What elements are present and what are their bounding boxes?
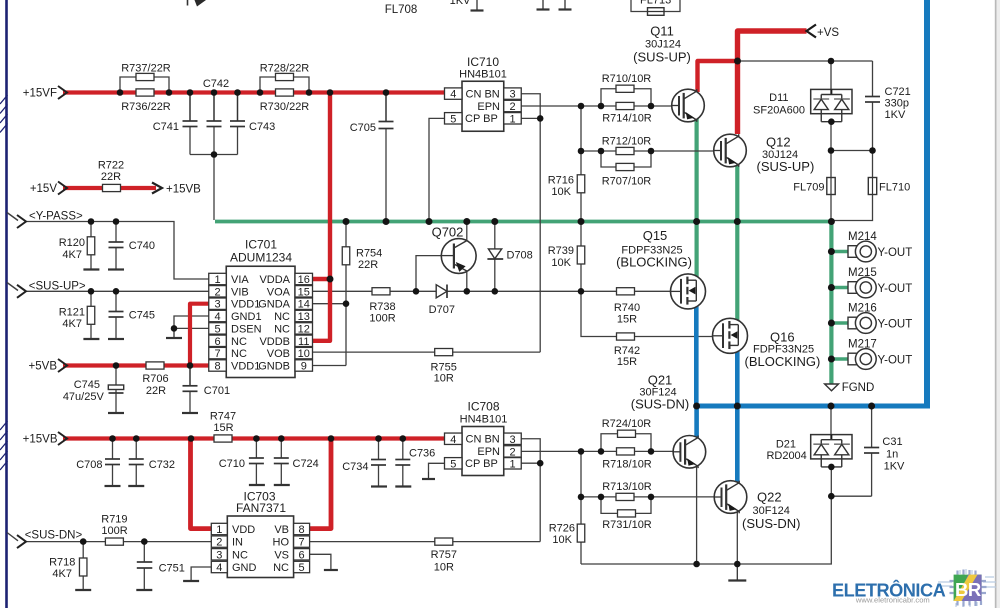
svg-text:(SUS-UP): (SUS-UP)	[633, 50, 691, 65]
svg-text:CP BP: CP BP	[465, 113, 498, 125]
svg-text:(SUS-DN): (SUS-DN)	[742, 516, 801, 531]
wire C742 drop	[213, 93, 215, 122]
wire C745 electrolytic to ground	[115, 390, 117, 394]
connector M216 Y-OUT	[848, 317, 859, 329]
junction dots Q21 gate network	[578, 448, 585, 455]
svg-text:C745: C745	[129, 310, 155, 322]
svg-text:C708: C708	[76, 459, 102, 471]
svg-text:EPN: EPN	[477, 101, 500, 113]
svg-text:C741: C741	[153, 121, 179, 133]
ground R120	[83, 268, 99, 270]
capacitor C741	[189, 93, 191, 122]
svg-text:DSEN: DSEN	[231, 323, 262, 335]
svg-text:100R: 100R	[101, 525, 127, 537]
wire green bus drop to FGND	[829, 220, 833, 384]
junction dot D21/C31 bottom	[828, 493, 835, 500]
wire red riser to IC701 VDDA/VDDB	[313, 93, 331, 341]
ground C724	[274, 484, 290, 486]
svg-text:C742: C742	[203, 78, 229, 90]
svg-text:VDD1: VDD1	[231, 299, 260, 311]
svg-text:7: 7	[214, 348, 220, 360]
wire IC701 pin15 VOA to Q15 gate	[313, 290, 671, 292]
svg-text:1: 1	[216, 524, 222, 536]
wire IC701 pin4 to ground	[174, 316, 209, 331]
svg-text:HN4B101: HN4B101	[459, 69, 507, 81]
svg-text:3: 3	[509, 434, 515, 446]
svg-text:2: 2	[214, 286, 220, 298]
capacitor C710	[249, 457, 264, 459]
top ground stub A	[476, 0, 478, 11]
IC701 pin 4	[209, 310, 227, 321]
svg-text:Q21: Q21	[648, 373, 673, 388]
svg-text:M216: M216	[848, 303, 877, 315]
wire R710 loop	[601, 89, 651, 106]
svg-text:C724: C724	[293, 458, 319, 470]
border hatch marks lower	[0, 421, 8, 430]
svg-text:R747: R747	[210, 411, 236, 423]
wire stub to M215	[831, 286, 849, 289]
ground C751	[136, 589, 152, 591]
resistor R724	[618, 430, 636, 437]
resistor R747	[214, 435, 232, 442]
ground R718	[75, 589, 91, 591]
svg-text:16: 16	[298, 274, 310, 286]
resistor R712	[616, 147, 634, 154]
resistor R737	[136, 73, 154, 80]
wire blue Q22 collector feed	[735, 406, 740, 482]
svg-text:VDD1: VDD1	[231, 361, 260, 373]
wire C740 drop	[115, 222, 117, 243]
IC703 pin 4	[211, 561, 227, 572]
schematic frame right edge	[995, 0, 997, 608]
wire Y-PASS entry diagonal	[7, 213, 18, 221]
IC703 pin 1	[211, 523, 227, 534]
wire +15VF rail red	[63, 90, 447, 94]
svg-text:5: 5	[214, 323, 220, 335]
svg-text:3: 3	[509, 89, 515, 101]
svg-text:EPN: EPN	[477, 446, 500, 458]
capacitor C745 (SUS-UP)	[109, 311, 124, 313]
wire green Q11 emitter to Q15 drain	[694, 107, 698, 277]
wire R120 drop from Y-PASS	[90, 222, 92, 238]
svg-text:CP BP: CP BP	[465, 458, 498, 470]
svg-text:Y-OUT: Y-OUT	[878, 247, 913, 259]
junction dots blue rail	[693, 403, 700, 410]
svg-text:+15V: +15V	[30, 183, 58, 195]
+15VB output arrow	[152, 183, 162, 194]
resistor R706	[146, 362, 164, 369]
svg-text:VB: VB	[274, 524, 289, 536]
svg-text:NC: NC	[273, 562, 289, 574]
svg-text:GNDB: GNDB	[258, 361, 290, 373]
transistor Q11 IGBT	[672, 89, 705, 122]
IC710 pin 3	[504, 88, 522, 99]
wire C701 drop	[189, 366, 191, 386]
resistor R121	[87, 306, 95, 324]
ground C701	[182, 412, 198, 414]
wire Q702 emitter	[466, 269, 468, 291]
svg-text:13: 13	[298, 311, 310, 323]
svg-text:C745: C745	[74, 379, 100, 391]
capacitor C724	[274, 457, 289, 459]
wire FL710 to green bus corner	[833, 195, 873, 221]
svg-text:6: 6	[214, 336, 220, 348]
svg-text:R718/10R: R718/10R	[602, 459, 652, 471]
svg-text:R730/22R: R730/22R	[260, 101, 310, 113]
junction dot IC708 pins 1/3	[537, 460, 544, 467]
capacitor C751	[137, 561, 153, 563]
svg-text:(SUS-UP): (SUS-UP)	[757, 159, 815, 174]
svg-text:M214: M214	[848, 231, 877, 243]
svg-text:C31: C31	[882, 436, 902, 448]
wire Q21 emitter drop	[696, 467, 698, 564]
wire R718 drop	[82, 542, 84, 559]
watermark BR chip logo	[950, 570, 987, 607]
node +5VB input	[58, 359, 67, 372]
wire node D11/C721 bottom link	[831, 150, 873, 152]
svg-text:+15VB: +15VB	[23, 434, 58, 446]
wire C705 drop to green bus	[385, 93, 387, 221]
svg-text:BR: BR	[955, 579, 981, 600]
wire IC708 pin5 to ground	[429, 463, 446, 472]
svg-text:+5VB: +5VB	[29, 361, 58, 373]
wire IC701 pin5	[174, 327, 209, 329]
junction dots Q11 gate network	[578, 103, 585, 110]
IC708 pin 1	[504, 458, 522, 469]
junction dots SUS-UP	[88, 288, 95, 295]
wire IC708 pin3/pin1 to R757	[520, 439, 540, 542]
svg-text:C701: C701	[204, 385, 230, 397]
svg-text:M215: M215	[848, 267, 877, 279]
svg-text:+15VB: +15VB	[166, 184, 201, 196]
svg-text:D21: D21	[776, 439, 796, 451]
svg-text:1n: 1n	[886, 449, 898, 461]
wire Q22 emitter drop	[736, 513, 738, 565]
wire C734 drop	[378, 439, 380, 460]
capacitor C736	[395, 459, 410, 461]
ground IC701 pin4/5	[173, 331, 175, 338]
IC703 pin 6	[294, 549, 310, 560]
node SUS-DN input	[17, 535, 26, 548]
svg-text:10R: 10R	[434, 562, 454, 574]
wire blue Q21 collector feed	[694, 406, 699, 437]
svg-text:VDDB: VDDB	[259, 336, 290, 348]
svg-text:ADUM1234: ADUM1234	[230, 251, 292, 265]
svg-text:R738: R738	[369, 301, 395, 313]
svg-text:D11: D11	[769, 92, 788, 104]
svg-text:22R: 22R	[358, 259, 378, 271]
wire FL709 to green bus	[830, 195, 832, 222]
IC701 pin 6	[209, 335, 227, 346]
wire R713 loop	[601, 497, 651, 514]
IC708 pin 3	[504, 433, 522, 444]
wire IC710 pin5 to green bus	[429, 118, 446, 220]
svg-text:R718: R718	[49, 557, 75, 569]
svg-text:4: 4	[214, 311, 220, 323]
svg-text:14: 14	[298, 299, 310, 311]
wire IC701 pin14	[313, 303, 347, 305]
wire IC701 pin10 VOB to R755	[313, 351, 541, 353]
wire +15VB rail red	[63, 436, 447, 440]
wire R121 drop from SUS-UP	[90, 291, 92, 306]
IC701 pin 12	[295, 323, 313, 334]
ground FGND symbol	[825, 384, 839, 391]
wire red Q11 collector link	[698, 61, 738, 92]
fuse FL710	[868, 178, 876, 195]
IC701 pin 5	[209, 323, 227, 334]
svg-text:R716: R716	[548, 175, 574, 187]
transistor Q22 IGBT	[714, 481, 747, 514]
IC710 body HN4B101	[462, 81, 504, 131]
svg-text:CN BN: CN BN	[466, 434, 500, 446]
wire IC703 pin2 SUS-DN net	[26, 541, 211, 543]
diode D707	[436, 285, 447, 298]
svg-text:HO: HO	[273, 537, 290, 549]
svg-text:C743: C743	[249, 121, 275, 133]
wire C736 drop	[402, 439, 404, 460]
svg-text:+15VF: +15VF	[23, 88, 57, 100]
transistor Q12 IGBT	[714, 134, 747, 167]
svg-text:10: 10	[298, 348, 310, 360]
svg-text:100R: 100R	[369, 313, 395, 325]
IC703 pin 2	[211, 536, 227, 547]
svg-text:FL708: FL708	[385, 4, 418, 16]
svg-text:1KV: 1KV	[884, 461, 905, 473]
IC703 pin 5	[294, 561, 310, 572]
svg-text:VDD: VDD	[232, 524, 255, 536]
svg-text:R731/10R: R731/10R	[602, 519, 652, 531]
junction dots +15VF rail	[117, 89, 124, 96]
svg-text:D707: D707	[429, 304, 455, 316]
wire C724 drop	[280, 439, 282, 459]
svg-text:GND1: GND1	[231, 311, 262, 323]
IC708 body HN4B101	[462, 427, 504, 476]
ground IC703 pin4	[190, 580, 192, 583]
svg-text:5: 5	[450, 113, 456, 125]
wire R757 to IC703 pin7	[310, 541, 541, 543]
dual diode D11	[811, 89, 852, 113]
resistor R740	[617, 288, 635, 295]
resistor R738	[372, 288, 390, 295]
capacitor C745 electrolytic 47u/25V	[108, 385, 123, 390]
svg-text:330p: 330p	[885, 98, 909, 110]
svg-text:Y-OUT: Y-OUT	[878, 354, 913, 366]
wire IC708 pin2 to gate network Q21	[520, 450, 581, 452]
ground C745	[108, 338, 124, 340]
partial transistor mark top edge	[187, 0, 189, 6]
svg-text:VS: VS	[274, 549, 289, 561]
wire D11 top stub	[830, 61, 832, 89]
svg-text:GND: GND	[232, 562, 257, 574]
svg-text:2: 2	[509, 101, 515, 113]
svg-text:11: 11	[298, 336, 309, 348]
svg-text:C736: C736	[409, 448, 435, 460]
IC710 pin 2	[504, 100, 522, 111]
wire Q702 collector to green bus	[466, 222, 468, 243]
wire R724 loop	[601, 434, 651, 452]
junction dot IC701 pin16 red	[327, 276, 334, 283]
junction dots +15VB rail	[109, 435, 116, 442]
svg-text:Y-OUT: Y-OUT	[878, 318, 913, 330]
svg-text:C734: C734	[342, 461, 368, 473]
ground C710	[249, 484, 265, 486]
connector M214 Y-OUT	[848, 246, 859, 258]
svg-text:C705: C705	[350, 122, 376, 134]
wire R712 loop	[601, 151, 651, 167]
svg-text:<SUS-UP>: <SUS-UP>	[29, 280, 86, 292]
fuse FL709	[827, 178, 835, 195]
wire Q12 gate	[581, 150, 714, 152]
diode D708	[488, 249, 501, 259]
svg-text:22R: 22R	[101, 171, 121, 183]
wire Q21 gate	[581, 450, 673, 452]
svg-text:Q12: Q12	[766, 135, 791, 150]
resistor R718 (gate)	[617, 448, 635, 455]
svg-text:C732: C732	[149, 459, 175, 471]
svg-text:FL709: FL709	[793, 182, 824, 194]
resistor R754	[342, 247, 350, 265]
wire C31 body	[871, 406, 873, 448]
wire stub to M214	[831, 250, 849, 253]
junction dots green bus	[343, 218, 350, 225]
svg-text:4: 4	[450, 434, 456, 446]
junction dot IC710 pins 1/3	[537, 115, 544, 122]
ground Q21/Q22 source rail	[736, 564, 738, 581]
resistor R710	[616, 85, 634, 92]
junction dots Y-PASS	[88, 218, 95, 225]
svg-text:Q22: Q22	[757, 490, 782, 505]
wire SUS-UP net to IC701 pin2	[26, 290, 209, 292]
ground R121	[83, 338, 99, 340]
wire +VS red feed	[738, 31, 807, 134]
svg-text:VOA: VOA	[267, 286, 291, 298]
IC701 pin 8	[209, 360, 227, 371]
IC703 pin 7	[294, 536, 310, 547]
svg-text:FL713: FL713	[640, 0, 671, 7]
dual diode D21	[811, 435, 852, 459]
svg-text:RD2004: RD2004	[766, 450, 806, 462]
top ground stub B	[542, 0, 544, 10]
resistor R755	[435, 349, 453, 356]
svg-text:4: 4	[216, 562, 222, 574]
wire +5VB rail red	[63, 363, 210, 367]
ground C745 electrolytic	[108, 412, 124, 414]
wire SUS-UP entry diagonal	[7, 283, 18, 291]
svg-text:R737/22R: R737/22R	[121, 63, 171, 75]
svg-text:R728/22R: R728/22R	[260, 63, 310, 75]
transistor Q21 IGBT	[673, 436, 706, 469]
resistor R713	[616, 493, 634, 500]
junction dots +VS node	[734, 58, 741, 65]
svg-text:R739: R739	[548, 245, 574, 257]
svg-text:8: 8	[214, 361, 220, 373]
node +15VB input	[58, 432, 67, 445]
svg-text:FAN7371: FAN7371	[236, 501, 286, 515]
svg-text:12: 12	[298, 323, 310, 335]
wire green Y-energy-recovery bus horizontal	[215, 220, 831, 224]
svg-text:NC: NC	[274, 311, 290, 323]
wire C745 drop (SUS-UP)	[115, 291, 117, 311]
resistor R716	[577, 175, 585, 193]
resistor R714	[616, 102, 634, 109]
wire C708 drop	[112, 439, 114, 460]
schematic page border (left)	[5, 0, 8, 608]
capacitor C732	[129, 458, 144, 460]
resistor R120	[87, 237, 95, 255]
svg-text:15: 15	[298, 286, 310, 298]
wire red IC703 VB to +15VB	[310, 439, 331, 529]
IC701 pin 11	[295, 335, 313, 346]
svg-text:4K7: 4K7	[62, 318, 82, 330]
svg-text:NC: NC	[231, 348, 247, 360]
wire red IC701 pin3 branch	[190, 304, 209, 366]
svg-text:R757: R757	[431, 549, 457, 561]
svg-text:NC: NC	[231, 336, 247, 348]
wire red spur IC701 pin16	[313, 277, 331, 281]
svg-text:R707/10R: R707/10R	[602, 176, 652, 188]
junction dots Q22 gate network	[578, 494, 585, 501]
svg-text:10K: 10K	[551, 257, 571, 269]
junction dots VOA line	[413, 288, 420, 295]
svg-text:9: 9	[301, 361, 307, 373]
wire IC708 pin1	[520, 462, 540, 464]
resistor R731	[618, 510, 636, 517]
svg-text:3: 3	[216, 549, 222, 561]
ground IC708 pin5	[428, 472, 430, 479]
wire IC710 pin2 to gate network Q11	[519, 105, 581, 107]
wire red drop to IC703 VDD	[191, 439, 212, 529]
wire +VS node to C721	[738, 60, 873, 62]
IC701 pin 16	[295, 273, 313, 284]
svg-text:10R: 10R	[434, 373, 454, 385]
svg-text:1: 1	[509, 113, 515, 125]
junction dots SUS-DN net	[80, 538, 87, 545]
svg-text:R726: R726	[549, 523, 575, 535]
wire C743 drop	[237, 93, 239, 122]
svg-text:1: 1	[214, 274, 220, 286]
IC701 pin 10	[295, 347, 313, 358]
svg-text:Q702: Q702	[432, 225, 464, 240]
IC703 body FAN7371	[227, 516, 293, 578]
svg-text:+VS: +VS	[817, 27, 839, 39]
wire green Q12 emitter to Q16 drain	[735, 152, 739, 322]
svg-text:www.eletronicabr.com: www.eletronicabr.com	[855, 595, 930, 604]
node +15VF input	[58, 86, 67, 99]
svg-text:7: 7	[299, 537, 305, 549]
IC701 pin 9	[295, 360, 313, 371]
node Y-PASS input	[17, 215, 26, 228]
wire C710 drop	[255, 439, 257, 459]
wire stub to M216	[831, 321, 849, 324]
connector M215 Y-OUT	[848, 282, 859, 294]
svg-text:Q15: Q15	[643, 228, 668, 243]
wire C721 body	[872, 61, 874, 97]
op-amp IC701 body ADUM1234	[226, 266, 295, 377]
resistor R730	[276, 89, 294, 96]
junction dot IC701 pin4/5 ground	[171, 325, 178, 332]
svg-text:FGND: FGND	[842, 382, 875, 394]
svg-text:15R: 15R	[213, 422, 233, 434]
wire R728/R730 loop	[260, 77, 309, 93]
svg-text:Q11: Q11	[650, 24, 674, 39]
ground C736	[395, 485, 411, 487]
top ground stub C	[564, 0, 566, 10]
wire R718 to ground	[82, 575, 84, 590]
svg-text:IC710: IC710	[467, 55, 499, 69]
svg-text:VDDA: VDDA	[259, 274, 290, 286]
IC703 pin 3	[211, 549, 227, 560]
svg-text:(SUS-DN): (SUS-DN)	[631, 397, 690, 412]
